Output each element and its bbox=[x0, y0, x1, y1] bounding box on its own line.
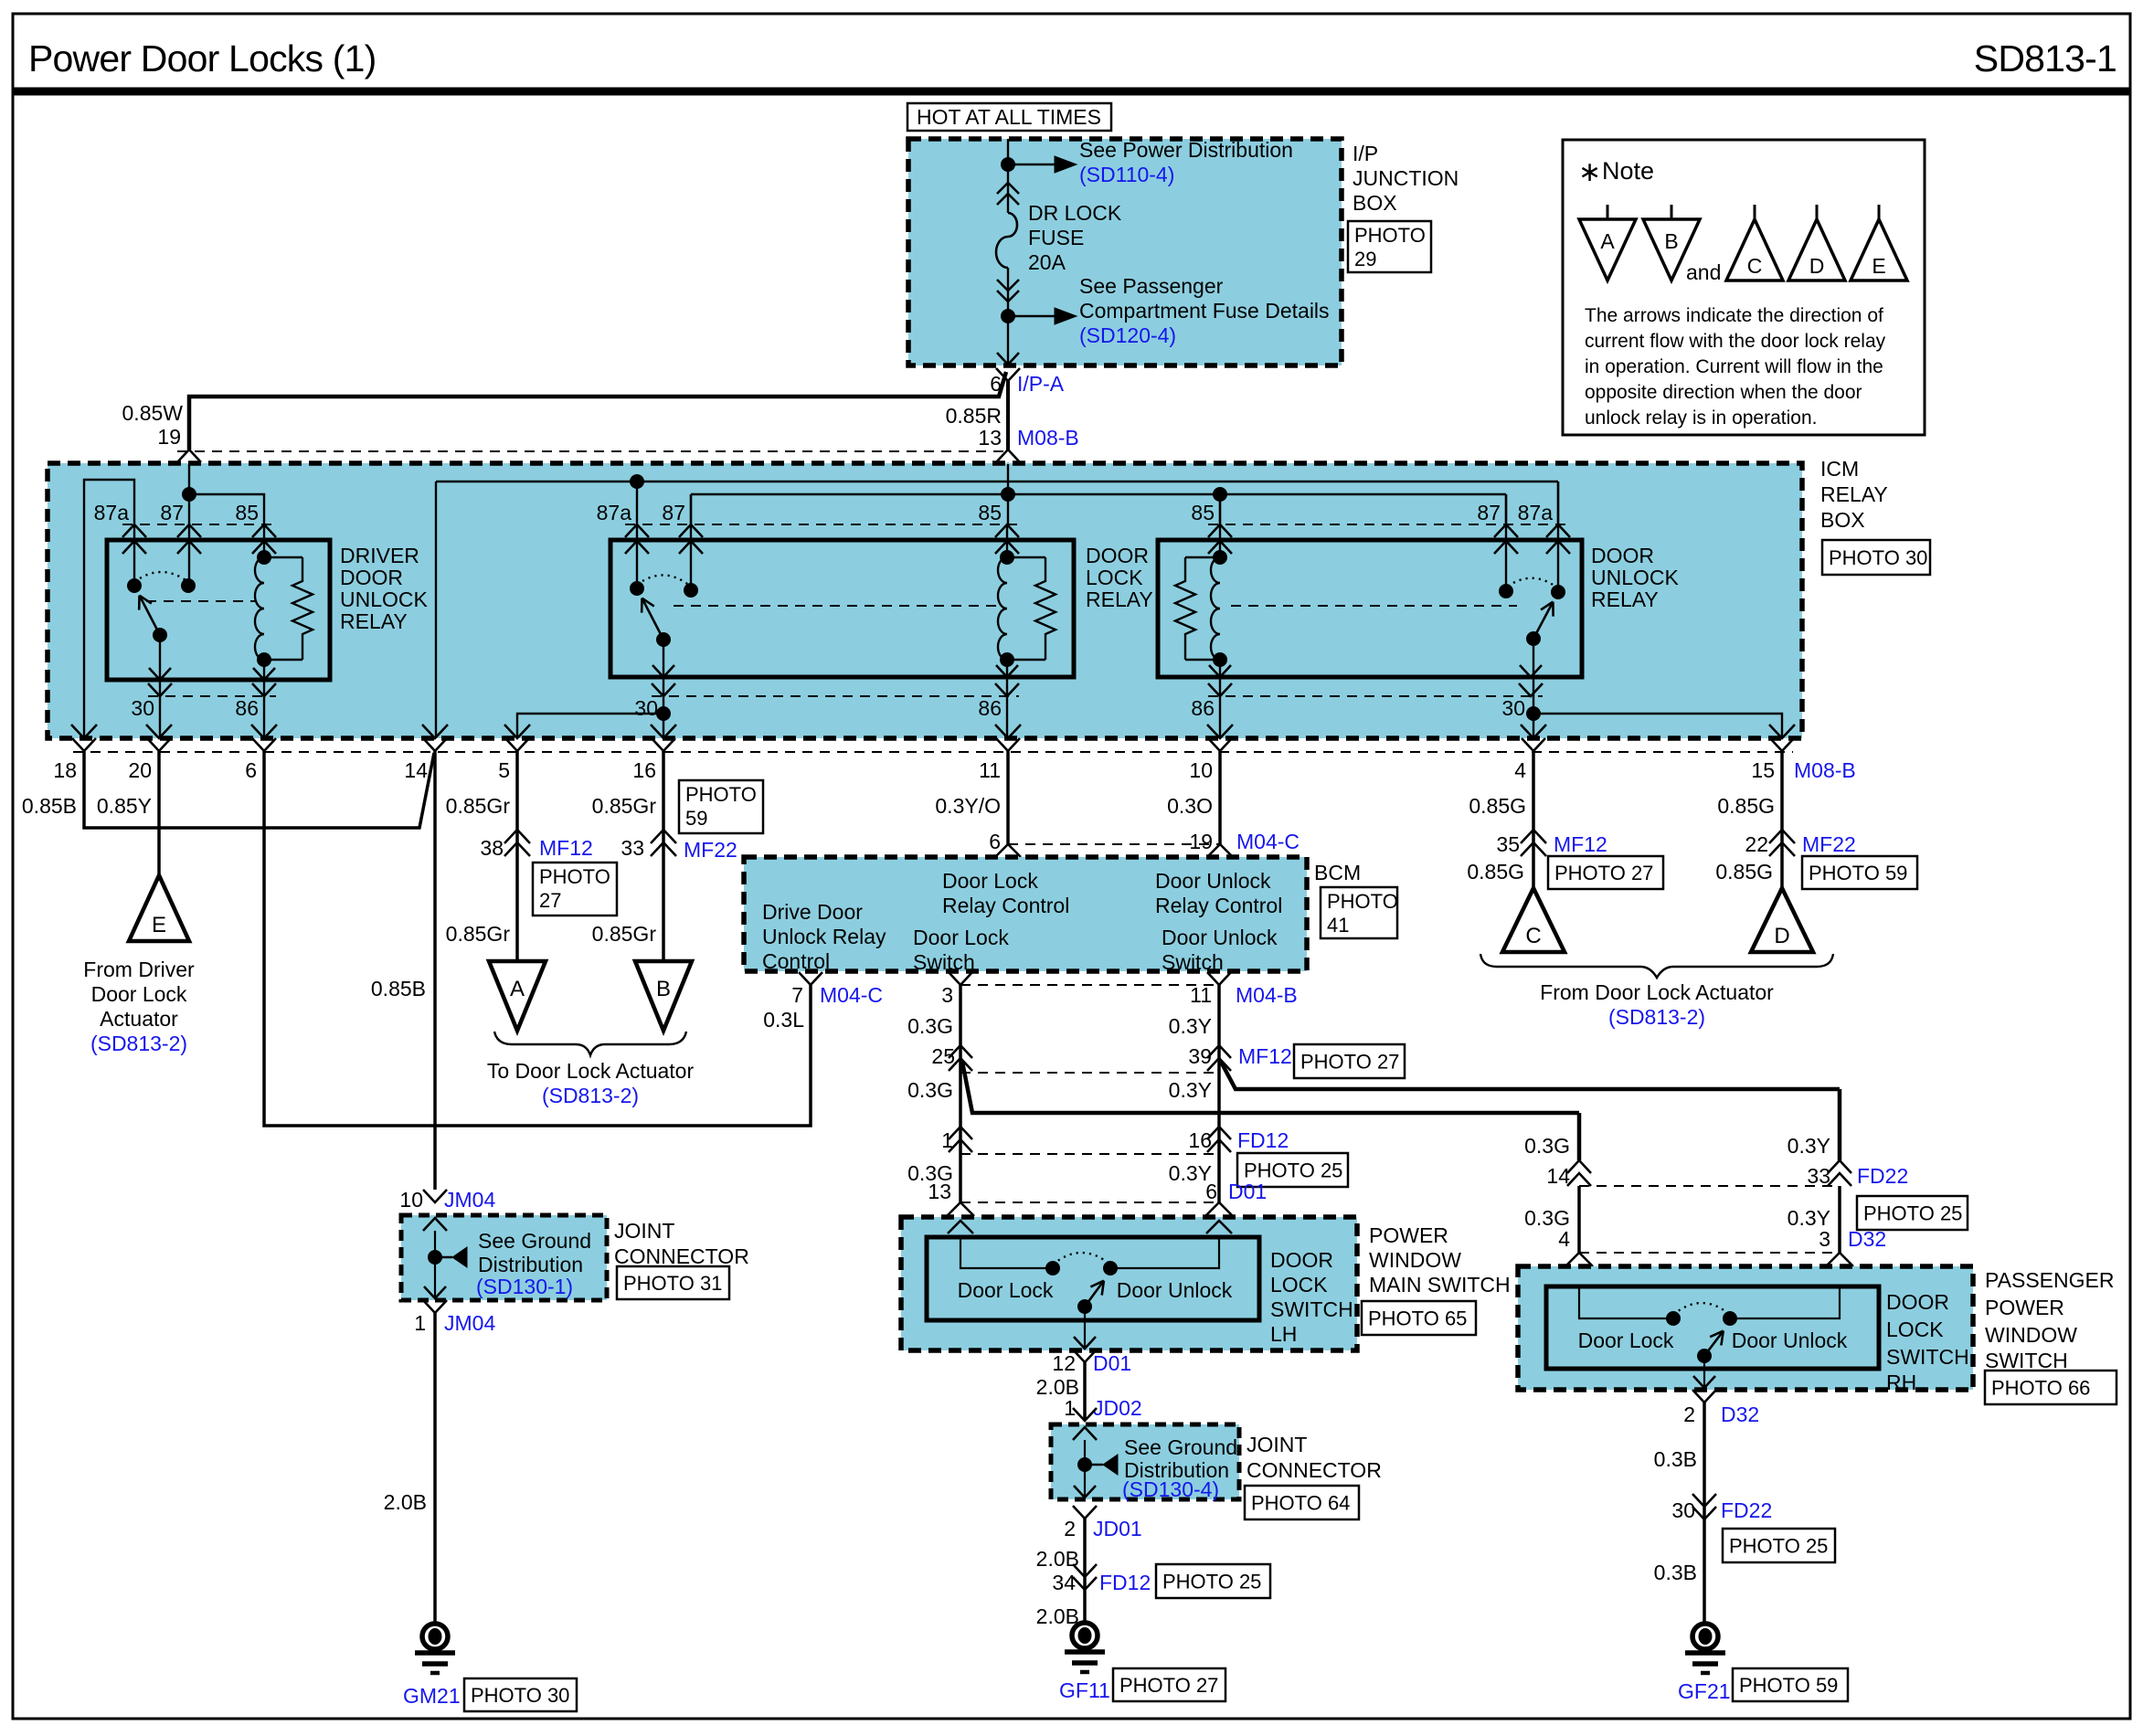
svg-text:14: 14 bbox=[404, 758, 428, 782]
svg-text:0.85Y: 0.85Y bbox=[97, 794, 152, 818]
svg-text:19: 19 bbox=[157, 425, 181, 449]
svg-text:0.3B: 0.3B bbox=[1654, 1447, 1697, 1471]
svg-text:16: 16 bbox=[1188, 1128, 1212, 1152]
svg-text:JD02: JD02 bbox=[1093, 1396, 1142, 1420]
svg-text:11: 11 bbox=[1190, 983, 1212, 1007]
svg-text:10: 10 bbox=[1189, 758, 1213, 782]
svg-text:D: D bbox=[1774, 924, 1789, 948]
svg-text:From Door Lock Actuator: From Door Lock Actuator bbox=[1540, 980, 1774, 1004]
svg-text:PHOTO: PHOTO bbox=[1354, 224, 1426, 247]
svg-text:Switch: Switch bbox=[913, 950, 975, 974]
svg-text:87a: 87a bbox=[1518, 501, 1554, 524]
svg-text:33: 33 bbox=[621, 836, 644, 860]
svg-text:0.85Gr: 0.85Gr bbox=[446, 922, 511, 946]
svg-text:2: 2 bbox=[1064, 1517, 1076, 1540]
svg-text:39: 39 bbox=[1188, 1044, 1212, 1068]
svg-text:27: 27 bbox=[539, 889, 561, 912]
svg-text:See Ground: See Ground bbox=[478, 1229, 591, 1253]
svg-text:2.0B: 2.0B bbox=[384, 1490, 427, 1514]
svg-text:I/P-A: I/P-A bbox=[1017, 372, 1065, 396]
svg-text:18: 18 bbox=[53, 758, 77, 782]
svg-text:SWITCH: SWITCH bbox=[1270, 1297, 1353, 1321]
svg-text:(SD130-4): (SD130-4) bbox=[1122, 1477, 1219, 1501]
svg-text:PHOTO 66: PHOTO 66 bbox=[1991, 1377, 2090, 1400]
svg-text:0.3B: 0.3B bbox=[1654, 1561, 1697, 1584]
svg-text:0.3Y: 0.3Y bbox=[1788, 1134, 1830, 1158]
svg-text:CONNECTOR: CONNECTOR bbox=[614, 1244, 749, 1268]
svg-text:19: 19 bbox=[1189, 830, 1213, 853]
svg-text:87: 87 bbox=[160, 501, 184, 524]
svg-text:E: E bbox=[152, 913, 166, 937]
svg-text:RELAY: RELAY bbox=[1820, 482, 1888, 506]
svg-text:I/P: I/P bbox=[1353, 142, 1378, 165]
svg-text:JM04: JM04 bbox=[444, 1188, 495, 1212]
svg-text:BOX: BOX bbox=[1820, 508, 1865, 532]
svg-text:0.3Y: 0.3Y bbox=[1169, 1014, 1212, 1038]
svg-text:Door Lock: Door Lock bbox=[913, 926, 1009, 949]
svg-text:1: 1 bbox=[414, 1311, 426, 1335]
svg-text:GF21: GF21 bbox=[1678, 1679, 1731, 1703]
svg-text:(SD813-2): (SD813-2) bbox=[90, 1032, 187, 1055]
svg-text:12: 12 bbox=[1052, 1351, 1076, 1375]
svg-text:3: 3 bbox=[1819, 1227, 1830, 1251]
svg-text:1: 1 bbox=[941, 1128, 953, 1152]
svg-text:D32: D32 bbox=[1721, 1403, 1759, 1426]
svg-text:PHOTO 65: PHOTO 65 bbox=[1368, 1307, 1467, 1330]
svg-text:WINDOW: WINDOW bbox=[1985, 1323, 2077, 1347]
svg-text:See Ground: See Ground bbox=[1124, 1435, 1237, 1459]
svg-text:Door Unlock: Door Unlock bbox=[1732, 1328, 1848, 1352]
svg-text:MF12: MF12 bbox=[1238, 1044, 1292, 1068]
svg-text:LH: LH bbox=[1270, 1322, 1297, 1346]
svg-text:10: 10 bbox=[399, 1188, 423, 1212]
svg-text:6: 6 bbox=[989, 830, 1001, 853]
svg-text:FD12: FD12 bbox=[1099, 1571, 1151, 1594]
svg-text:PHOTO: PHOTO bbox=[1327, 890, 1398, 913]
svg-text:Door Unlock: Door Unlock bbox=[1117, 1278, 1233, 1302]
svg-text:0.3Y: 0.3Y bbox=[1169, 1078, 1212, 1102]
svg-text:11: 11 bbox=[979, 758, 1001, 782]
svg-text:Control: Control bbox=[762, 949, 830, 973]
svg-text:PHOTO: PHOTO bbox=[539, 865, 610, 888]
svg-text:20A: 20A bbox=[1028, 250, 1066, 274]
svg-text:PHOTO 25: PHOTO 25 bbox=[1729, 1535, 1828, 1558]
svg-text:0.85B: 0.85B bbox=[371, 977, 426, 1000]
svg-text:SWITCH: SWITCH bbox=[1886, 1345, 1969, 1369]
svg-text:Door Lock: Door Lock bbox=[91, 982, 187, 1006]
svg-text:DR LOCK: DR LOCK bbox=[1028, 201, 1122, 225]
svg-text:87: 87 bbox=[1477, 501, 1501, 524]
svg-text:(SD813-2): (SD813-2) bbox=[542, 1084, 639, 1107]
svg-text:FD12: FD12 bbox=[1237, 1128, 1289, 1152]
svg-text:38: 38 bbox=[480, 836, 504, 860]
svg-text:A: A bbox=[1600, 229, 1615, 253]
svg-text:41: 41 bbox=[1327, 914, 1349, 937]
svg-text:DOOR: DOOR bbox=[1886, 1290, 1949, 1314]
svg-text:ICM: ICM bbox=[1820, 457, 1859, 481]
svg-text:HOT AT ALL TIMES: HOT AT ALL TIMES bbox=[917, 105, 1101, 129]
svg-text:0.85Gr: 0.85Gr bbox=[592, 922, 657, 946]
svg-text:PHOTO 25: PHOTO 25 bbox=[1162, 1571, 1261, 1593]
svg-text:0.85G: 0.85G bbox=[1717, 794, 1775, 818]
svg-text:M04-B: M04-B bbox=[1236, 983, 1298, 1007]
svg-text:0.85G: 0.85G bbox=[1715, 860, 1773, 884]
svg-text:PHOTO 25: PHOTO 25 bbox=[1863, 1202, 1962, 1225]
svg-text:Compartment Fuse Details: Compartment Fuse Details bbox=[1079, 299, 1330, 323]
svg-text:To Door Lock Actuator: To Door Lock Actuator bbox=[487, 1059, 695, 1083]
svg-text:∗: ∗ bbox=[1578, 157, 1601, 187]
svg-text:34: 34 bbox=[1052, 1571, 1076, 1594]
svg-text:0.85B: 0.85B bbox=[22, 794, 77, 818]
svg-text:87: 87 bbox=[662, 501, 685, 524]
svg-text:MF12: MF12 bbox=[1554, 832, 1607, 856]
svg-text:30: 30 bbox=[634, 696, 658, 720]
svg-text:0.3G: 0.3G bbox=[907, 1078, 953, 1102]
svg-text:2.0B: 2.0B bbox=[1036, 1547, 1079, 1571]
svg-text:0.85Gr: 0.85Gr bbox=[592, 794, 657, 818]
svg-text:DOOR: DOOR bbox=[340, 566, 403, 589]
svg-text:Door Unlock: Door Unlock bbox=[1162, 926, 1278, 949]
svg-text:FD22: FD22 bbox=[1721, 1498, 1772, 1522]
svg-text:PHOTO 59: PHOTO 59 bbox=[1739, 1674, 1838, 1697]
svg-text:6: 6 bbox=[1205, 1180, 1217, 1203]
svg-text:D: D bbox=[1809, 254, 1825, 278]
svg-text:PHOTO 30: PHOTO 30 bbox=[1829, 546, 1927, 569]
svg-text:2.0B: 2.0B bbox=[1036, 1604, 1079, 1628]
svg-text:Unlock Relay: Unlock Relay bbox=[762, 925, 886, 948]
svg-text:CONNECTOR: CONNECTOR bbox=[1247, 1458, 1382, 1482]
svg-text:86: 86 bbox=[1191, 696, 1215, 720]
svg-text:RH: RH bbox=[1886, 1371, 1916, 1394]
svg-text:7: 7 bbox=[791, 983, 803, 1007]
svg-text:Door Lock: Door Lock bbox=[942, 869, 1038, 893]
svg-text:20: 20 bbox=[128, 758, 152, 782]
svg-text:15: 15 bbox=[1751, 758, 1775, 782]
svg-text:85: 85 bbox=[978, 501, 1002, 524]
svg-text:D01: D01 bbox=[1228, 1180, 1267, 1203]
svg-text:B: B bbox=[1664, 229, 1678, 253]
svg-text:C: C bbox=[1525, 924, 1541, 948]
svg-text:Door Lock: Door Lock bbox=[958, 1278, 1054, 1302]
svg-text:29: 29 bbox=[1354, 248, 1376, 270]
svg-text:33: 33 bbox=[1807, 1164, 1830, 1188]
svg-text:Distribution: Distribution bbox=[478, 1253, 583, 1276]
svg-text:PHOTO 59: PHOTO 59 bbox=[1809, 862, 1907, 884]
svg-text:M04-C: M04-C bbox=[820, 983, 883, 1007]
svg-text:(SD120-4): (SD120-4) bbox=[1079, 323, 1176, 347]
svg-text:JOINT: JOINT bbox=[614, 1219, 674, 1243]
svg-text:30: 30 bbox=[1501, 696, 1525, 720]
svg-text:D01: D01 bbox=[1093, 1351, 1131, 1375]
svg-text:PHOTO 64: PHOTO 64 bbox=[1251, 1492, 1350, 1515]
svg-text:Power Door Locks (1): Power Door Locks (1) bbox=[28, 37, 376, 79]
svg-text:LOCK: LOCK bbox=[1886, 1318, 1944, 1341]
svg-text:From Driver: From Driver bbox=[83, 958, 195, 981]
svg-text:MAIN SWITCH: MAIN SWITCH bbox=[1369, 1273, 1511, 1297]
svg-text:Door Lock: Door Lock bbox=[1578, 1328, 1674, 1352]
svg-text:LOCK: LOCK bbox=[1270, 1273, 1328, 1297]
svg-text:(SD130-1): (SD130-1) bbox=[476, 1275, 573, 1298]
svg-text:35: 35 bbox=[1496, 832, 1520, 856]
svg-text:PHOTO 27: PHOTO 27 bbox=[1119, 1674, 1218, 1697]
svg-text:Door Unlock: Door Unlock bbox=[1155, 869, 1271, 893]
svg-text:59: 59 bbox=[685, 807, 707, 830]
svg-text:SD813-1: SD813-1 bbox=[1974, 37, 2116, 79]
svg-text:RELAY: RELAY bbox=[1086, 587, 1153, 611]
svg-text:13: 13 bbox=[928, 1180, 951, 1203]
svg-text:0.3G: 0.3G bbox=[1524, 1134, 1570, 1158]
svg-text:A: A bbox=[510, 977, 525, 1001]
svg-text:Relay Control: Relay Control bbox=[942, 894, 1069, 917]
svg-text:RELAY: RELAY bbox=[340, 609, 408, 633]
svg-text:WINDOW: WINDOW bbox=[1369, 1248, 1461, 1272]
svg-text:Note: Note bbox=[1602, 157, 1654, 185]
svg-text:PHOTO 30: PHOTO 30 bbox=[471, 1684, 569, 1707]
svg-text:85: 85 bbox=[235, 501, 259, 524]
svg-text:PHOTO 27: PHOTO 27 bbox=[1300, 1051, 1399, 1074]
svg-text:The arrows indicate the direct: The arrows indicate the direction of bbox=[1585, 305, 1883, 326]
svg-text:unlock relay is in operation.: unlock relay is in operation. bbox=[1585, 408, 1817, 429]
svg-text:5: 5 bbox=[498, 758, 510, 782]
svg-text:BOX: BOX bbox=[1353, 191, 1397, 215]
svg-text:BCM: BCM bbox=[1314, 861, 1361, 884]
svg-text:86: 86 bbox=[978, 696, 1002, 720]
svg-text:UNLOCK: UNLOCK bbox=[1591, 566, 1680, 589]
svg-text:PHOTO 31: PHOTO 31 bbox=[623, 1272, 722, 1295]
svg-text:14: 14 bbox=[1546, 1164, 1570, 1188]
svg-text:See Power Distribution: See Power Distribution bbox=[1079, 138, 1293, 162]
svg-text:PASSENGER: PASSENGER bbox=[1985, 1268, 2114, 1292]
svg-text:30: 30 bbox=[1671, 1498, 1695, 1522]
svg-text:0.85W: 0.85W bbox=[122, 401, 184, 425]
svg-text:25: 25 bbox=[931, 1044, 955, 1068]
svg-text:GM21: GM21 bbox=[403, 1684, 461, 1708]
svg-text:(SD110-4): (SD110-4) bbox=[1079, 163, 1174, 186]
svg-text:GF11: GF11 bbox=[1059, 1678, 1110, 1702]
svg-text:JUNCTION: JUNCTION bbox=[1353, 166, 1459, 190]
svg-text:22: 22 bbox=[1745, 832, 1768, 856]
svg-text:3: 3 bbox=[941, 983, 953, 1007]
svg-text:MF12: MF12 bbox=[539, 836, 593, 860]
svg-text:M04-C: M04-C bbox=[1236, 830, 1300, 853]
svg-text:0.85G: 0.85G bbox=[1467, 860, 1524, 884]
svg-text:0.3O: 0.3O bbox=[1167, 794, 1213, 818]
svg-text:E: E bbox=[1872, 254, 1885, 278]
svg-text:M08-B: M08-B bbox=[1794, 758, 1856, 782]
svg-text:0.3L: 0.3L bbox=[763, 1008, 804, 1032]
svg-text:Drive Door: Drive Door bbox=[762, 900, 863, 924]
svg-text:0.85G: 0.85G bbox=[1469, 794, 1526, 818]
svg-text:SWITCH: SWITCH bbox=[1985, 1349, 2068, 1372]
svg-text:2: 2 bbox=[1683, 1403, 1695, 1426]
svg-text:and: and bbox=[1686, 260, 1721, 284]
svg-text:6: 6 bbox=[245, 758, 257, 782]
svg-text:PHOTO: PHOTO bbox=[685, 783, 757, 806]
svg-text:0.3G: 0.3G bbox=[907, 1014, 953, 1038]
svg-text:current flow with the door loc: current flow with the door lock relay bbox=[1585, 331, 1886, 352]
svg-text:13: 13 bbox=[978, 426, 1002, 450]
svg-text:30: 30 bbox=[131, 696, 154, 720]
svg-text:in operation. Current will flo: in operation. Current will flow in the bbox=[1585, 356, 1883, 377]
svg-text:DOOR: DOOR bbox=[1270, 1248, 1333, 1272]
svg-text:UNLOCK: UNLOCK bbox=[340, 587, 429, 611]
svg-text:RELAY: RELAY bbox=[1591, 587, 1659, 611]
svg-text:JOINT: JOINT bbox=[1247, 1433, 1307, 1456]
svg-text:DOOR: DOOR bbox=[1086, 544, 1149, 567]
svg-text:(SD813-2): (SD813-2) bbox=[1608, 1005, 1705, 1029]
svg-text:See Passenger: See Passenger bbox=[1079, 274, 1224, 298]
svg-text:86: 86 bbox=[235, 696, 259, 720]
svg-text:opposite direction when the do: opposite direction when the door bbox=[1585, 382, 1862, 403]
svg-text:Actuator: Actuator bbox=[100, 1007, 178, 1031]
svg-text:LOCK: LOCK bbox=[1086, 566, 1143, 589]
svg-text:Switch: Switch bbox=[1162, 950, 1224, 974]
svg-text:MF22: MF22 bbox=[684, 838, 737, 862]
svg-text:Relay Control: Relay Control bbox=[1155, 894, 1282, 917]
svg-text:DOOR: DOOR bbox=[1591, 544, 1654, 567]
svg-text:JM04: JM04 bbox=[444, 1311, 495, 1335]
svg-text:87a: 87a bbox=[597, 501, 632, 524]
svg-text:JD01: JD01 bbox=[1093, 1517, 1142, 1540]
svg-text:POWER: POWER bbox=[1985, 1296, 2064, 1319]
svg-text:87a: 87a bbox=[94, 501, 130, 524]
svg-text:C: C bbox=[1747, 254, 1763, 278]
svg-text:4: 4 bbox=[1558, 1227, 1570, 1251]
svg-text:DRIVER: DRIVER bbox=[340, 544, 419, 567]
svg-text:POWER: POWER bbox=[1369, 1223, 1448, 1247]
svg-text:D32: D32 bbox=[1848, 1227, 1886, 1251]
svg-text:PHOTO 27: PHOTO 27 bbox=[1554, 862, 1653, 884]
svg-text:MF22: MF22 bbox=[1802, 832, 1856, 856]
svg-text:B: B bbox=[656, 977, 671, 1001]
svg-text:M08-B: M08-B bbox=[1017, 426, 1079, 450]
svg-text:FUSE: FUSE bbox=[1028, 226, 1084, 249]
svg-text:16: 16 bbox=[632, 758, 656, 782]
svg-text:0.3Y/O: 0.3Y/O bbox=[935, 794, 1001, 818]
svg-text:PHOTO 25: PHOTO 25 bbox=[1244, 1159, 1342, 1182]
svg-text:0.85R: 0.85R bbox=[946, 404, 1002, 428]
svg-text:85: 85 bbox=[1191, 501, 1215, 524]
svg-text:4: 4 bbox=[1514, 758, 1526, 782]
svg-text:FD22: FD22 bbox=[1857, 1164, 1908, 1188]
svg-text:0.85Gr: 0.85Gr bbox=[446, 794, 511, 818]
